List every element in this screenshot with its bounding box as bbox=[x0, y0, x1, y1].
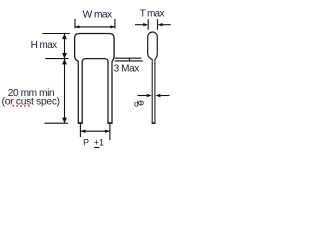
3 Max dimension lines bbox=[115, 58, 143, 61]
svg-text:W max: W max bbox=[83, 10, 112, 21]
right lead exit flare from corner bbox=[112, 56, 114, 61]
svg-text:T max: T max bbox=[140, 9, 165, 20]
side view capsule bbox=[148, 32, 158, 59]
capacitor body front view bbox=[75, 34, 115, 58]
lead diameter dimension bbox=[138, 94, 170, 97]
P pitch dimension bbox=[80, 124, 110, 141]
svg-text:3 Max: 3 Max bbox=[114, 64, 140, 75]
W max dimension bbox=[75, 19, 115, 29]
body bottom edge with lead flares bbox=[82, 59, 108, 62]
T max dimension bbox=[135, 19, 171, 30]
svg-text:H max: H max bbox=[31, 40, 58, 51]
side lead bbox=[152, 59, 155, 123]
svg-text:Φ: Φ bbox=[138, 99, 144, 108]
left lead exit flare from corner bbox=[75, 56, 79, 61]
svg-text:(or cust spec): (or cust spec) bbox=[2, 97, 60, 108]
red spellcheck dots under cust bbox=[13, 105, 30, 106]
right lead front bbox=[108, 61, 112, 124]
20mm lead length dimension bbox=[45, 59, 69, 123]
svg-text:P: P bbox=[83, 138, 89, 148]
H max dimension bbox=[42, 34, 69, 59]
tolerance underline bbox=[94, 147, 99, 148]
svg-text:+1: +1 bbox=[94, 138, 104, 148]
left lead front bbox=[78, 61, 82, 124]
